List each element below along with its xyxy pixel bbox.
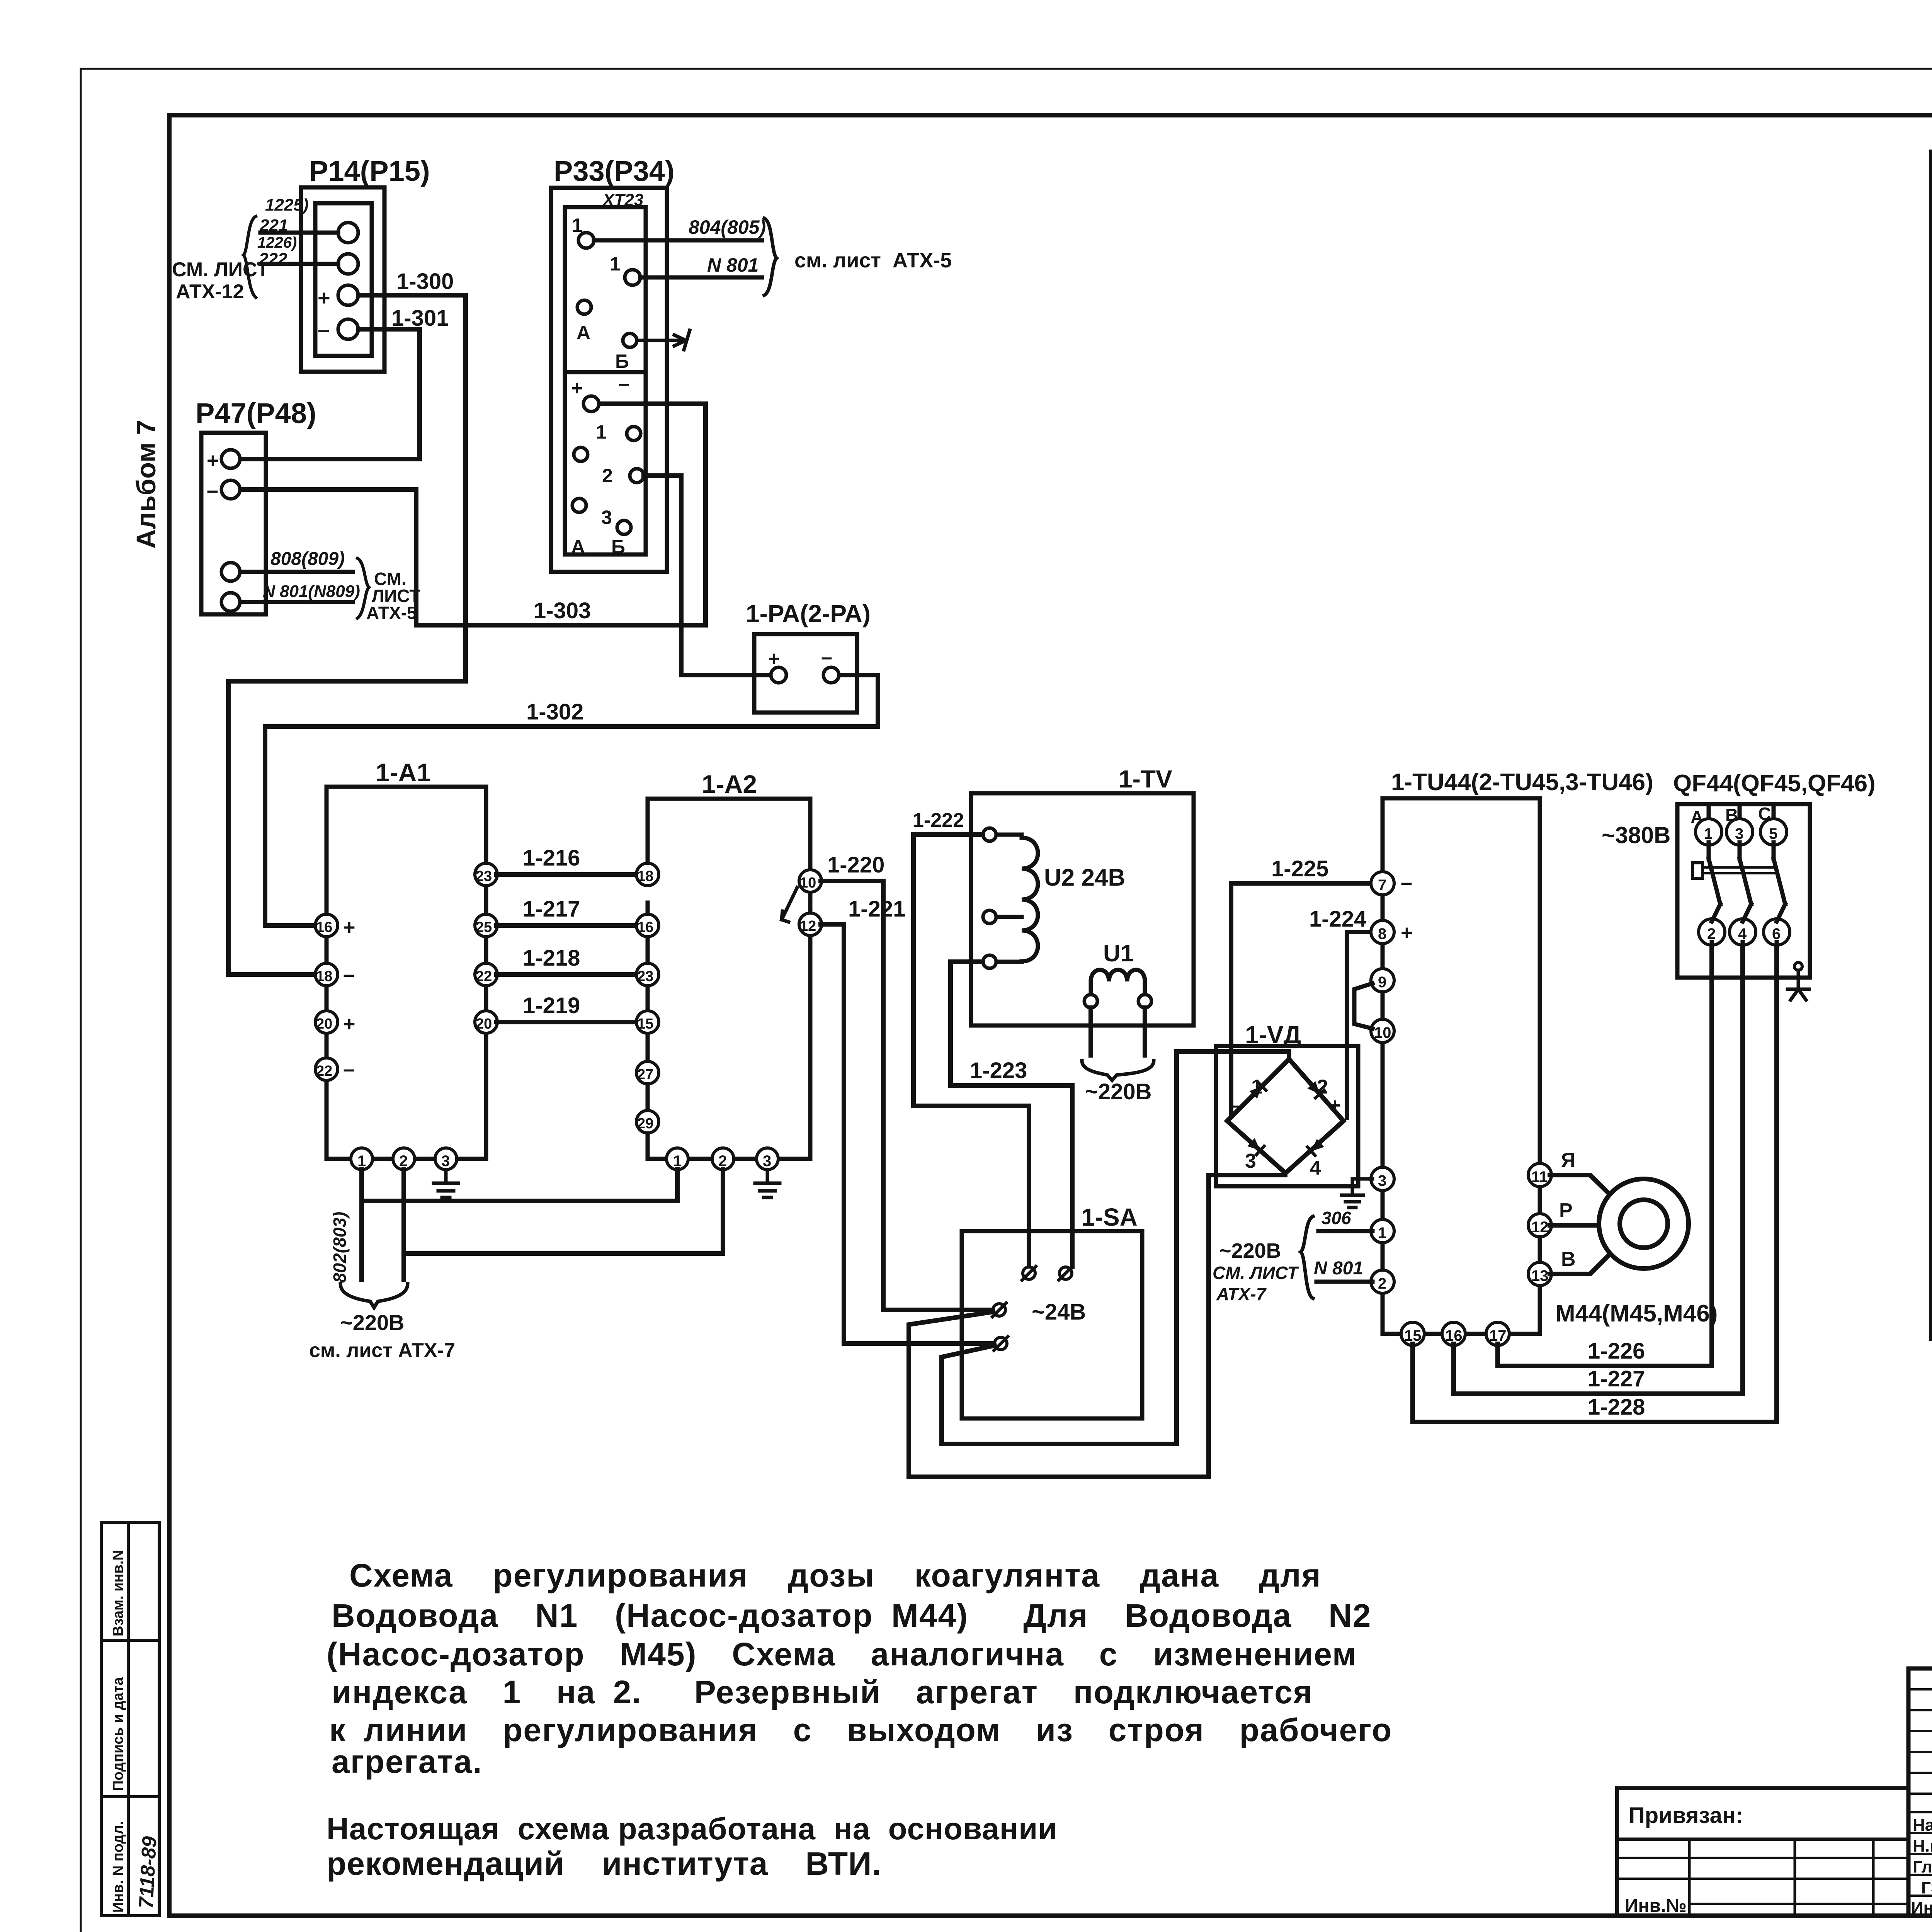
recorder P33(P34) [551,188,667,572]
svg-text:1-222: 1-222 [913,809,964,832]
svg-text:+: + [571,377,583,400]
svg-text:Я: Я [1561,1149,1575,1172]
P47 terminal plus [221,450,240,468]
wire 804(805) [594,238,762,243]
svg-text:1-ТV: 1-ТV [1119,765,1172,793]
wire P33.2 to PA plus [644,476,770,675]
manual control block 1-SA [962,1231,1142,1418]
TU44 box [1383,798,1540,1334]
U1 supply legs [1091,1008,1145,1055]
svg-text:4: 4 [1310,1157,1321,1179]
left margin stamp boxes [101,1522,159,1916]
svg-text:(Насос-дозатор М45) Схема а: (Насос-дозатор М45) Схема аналогична с и… [327,1636,1357,1672]
A1 terminal 22 [315,1058,338,1080]
svg-text:1-301: 1-301 [391,306,449,331]
P47 terminal 3 [221,563,240,581]
A2 terminal 2 [712,1148,734,1170]
svg-text:~220В: ~220В [1219,1239,1281,1262]
wire 1-303 [416,404,706,625]
title block signature rows [1908,1812,1932,1896]
svg-text:~380В: ~380В [1602,822,1670,848]
svg-text:1-221: 1-221 [848,896,905,922]
A2 terminal 18 [636,863,659,886]
brace 220V ATX-7 [1301,1216,1313,1298]
A2 terminal 27 [636,1061,659,1084]
TU44 terminal 11 [1528,1163,1551,1187]
svg-text:6: 6 [1772,925,1781,942]
svg-text:Р14(Р15): Р14(Р15) [309,155,430,187]
svg-text:25: 25 [476,919,492,935]
svg-text:–: – [1401,871,1412,894]
QF44 box [1677,804,1810,978]
motor M44 [1599,1179,1689,1269]
U1 terminal right [1138,995,1151,1008]
svg-text:СМ. ЛИСТ: СМ. ЛИСТ [1213,1263,1299,1283]
wire 1-220 [821,881,991,1310]
svg-text:СМ. ЛИСТ: СМ. ЛИСТ [172,259,269,281]
svg-text:2: 2 [1707,925,1716,942]
TU44 terminal 3 [1371,1167,1394,1190]
svg-text:23: 23 [476,868,492,884]
svg-text:29: 29 [637,1116,653,1132]
TU44 terminal 2 [1371,1270,1394,1293]
svg-text:1-226: 1-226 [1588,1338,1645,1364]
svg-text:~220В: ~220В [340,1310,405,1335]
block 1-A2 [648,799,810,1159]
svg-text:1-224: 1-224 [1309,906,1366,932]
wire A1.2 to A2.2 [404,1170,723,1280]
svg-text:2: 2 [602,465,613,486]
svg-text:–: – [343,1058,355,1081]
P33 pin 3 row [572,498,586,512]
svg-text:АТХ-12: АТХ-12 [176,281,244,303]
wire 808(809) from P47.3 [241,570,353,574]
svg-text:–: – [343,963,355,986]
svg-text:23: 23 [637,968,653,985]
svg-text:10: 10 [800,875,816,891]
brace under 220V feed [340,1284,408,1308]
wire TU44.11 to motor [1550,1175,1608,1193]
title block left thin rows [1908,1689,1932,1794]
svg-text:1-220: 1-220 [827,852,884,878]
svg-text:Н.контр.: Н.контр. [1913,1837,1932,1855]
svg-text:к линии регулирования с вых: к линии регулирования с выходом из строя… [329,1712,1393,1748]
wire 1-300 [228,295,466,975]
TU44 terminal 15 [1401,1322,1424,1345]
jumper 9-10 [1354,983,1372,1029]
svg-text:Р: Р [1559,1199,1573,1222]
svg-text:3: 3 [1378,1172,1386,1189]
table outer box [1931,151,1932,1339]
A2 terminal 3 [757,1148,778,1170]
svg-text:1-VД: 1-VД [1245,1021,1301,1049]
wire N801 to TU44.2 [1316,1280,1372,1284]
svg-text:Водовода N1 (Насос-дозатор М: Водовода N1 (Насос-дозатор М44) Для Водо… [332,1597,1371,1634]
wire 1-222 [913,835,1029,1267]
svg-text:1-218: 1-218 [523,946,580,971]
diode 3 [1247,1138,1264,1155]
svg-text:11: 11 [1531,1168,1548,1185]
svg-text:~24В: ~24В [1032,1299,1086,1325]
TU44 terminal 7 [1371,872,1394,895]
svg-text:М44(М45,М46): М44(М45,М46) [1555,1300,1718,1327]
A1 terminal 25 [475,914,497,937]
TV terminal top [983,828,996,841]
block 1-A1 [327,787,486,1159]
svg-text:Р47(Р48): Р47(Р48) [196,397,316,429]
svg-text:+: + [207,449,219,472]
svg-text:3: 3 [1245,1150,1256,1172]
wire N801 from P33 [640,276,762,280]
wire 1-217 [497,923,637,928]
svg-text:+: + [343,1012,355,1036]
svg-text:1: 1 [673,1153,682,1170]
svg-text:Настоящая схема разработана: Настоящая схема разработана на основании [327,1811,1057,1846]
svg-text:1-SА: 1-SА [1081,1203,1138,1231]
svg-text:U1: U1 [1103,940,1134,967]
wire A1.1 to A2.1 [362,1170,677,1280]
QF44 ground [1794,963,1802,970]
A1 terminal 18 [315,963,338,986]
svg-text:+: + [1329,1094,1341,1117]
svg-text:Взам. инв.N: Взам. инв.N [110,1550,126,1636]
svg-text:12: 12 [800,918,816,934]
wire 222 to P14.2 [260,262,338,266]
P33 pin A [577,300,591,314]
svg-text:20: 20 [476,1016,492,1032]
svg-text:АТХ-7: АТХ-7 [1216,1284,1267,1304]
svg-text:9: 9 [1378,974,1386,991]
svg-text:Схема регулирования дозы ко: Схема регулирования дозы коагулянта дана… [349,1557,1321,1594]
svg-text:1226): 1226) [257,234,297,251]
svg-text:~220В: ~220В [1085,1079,1152,1104]
diode 4 [1308,1139,1325,1156]
svg-text:20: 20 [316,1016,332,1032]
svg-text:27: 27 [637,1066,653,1083]
svg-text:16: 16 [637,919,653,935]
P33 pin B with test arrow [623,333,637,347]
svg-text:22: 22 [476,968,492,985]
svg-text:ХТ23: ХТ23 [602,190,643,209]
svg-text:3: 3 [601,507,612,528]
svg-text:1-А2: 1-А2 [702,770,757,798]
svg-text:Альбом 7: Альбом 7 [131,420,161,549]
P47 terminal minus [221,480,240,499]
A1 terminal 20r [475,1011,497,1033]
svg-text:Б: Б [611,536,625,558]
svg-text:N 801(N809): N 801(N809) [263,582,360,601]
svg-text:–: – [618,372,629,395]
title block outer [1908,1668,1932,1916]
svg-text:1: 1 [610,253,621,275]
svg-text:7: 7 [1378,877,1386,894]
svg-text:N 801: N 801 [707,254,759,276]
svg-text:3: 3 [763,1153,771,1170]
A2 switch blade [782,888,797,922]
wire 1-218 [497,972,637,977]
QF44 pole B [1738,804,1742,821]
wire 1-225 bridge minus to TU44.7 [1231,883,1371,1117]
wire P47 minus to 1-303 [241,490,416,625]
svg-text:1-227: 1-227 [1588,1366,1645,1391]
P14 terminal minus [338,319,358,339]
svg-text:18: 18 [637,868,653,884]
svg-text:13: 13 [1531,1267,1549,1284]
primary U1 coil [1091,970,1145,981]
transformer 1-TV box [971,793,1194,1026]
milliammeter 1-PA(2-PA) [754,634,857,713]
TU44.3 ground [1342,1179,1372,1207]
svg-text:8: 8 [1378,925,1386,942]
svg-text:U2 24В: U2 24В [1044,864,1125,891]
TU44 terminal 1 [1371,1219,1394,1243]
P14 terminal plus [338,285,358,305]
svg-text:Б: Б [615,350,629,372]
svg-text:808(809): 808(809) [270,549,345,569]
wire 1-228 [1413,942,1777,1422]
wire TU44.12 to motor [1550,1223,1599,1228]
U1 terminal left [1084,995,1097,1008]
main frame top line [169,113,1932,117]
TU44 terminal 10 [1371,1019,1394,1043]
A1 terminal 23 [475,863,497,886]
A1 terminal 16 [315,914,338,937]
svg-text:Инж.II к.: Инж.II к. [1911,1898,1932,1917]
wire 1-223 [951,962,1072,1267]
A1 ground [434,1170,458,1197]
wire 1-216 [497,872,637,877]
A2 terminal 10 [799,870,821,892]
svg-text:10: 10 [1374,1024,1391,1041]
svg-text:1-216: 1-216 [523,845,580,871]
svg-text:4: 4 [1738,925,1747,942]
TV secondary coil [1022,838,1038,961]
svg-text:ГЭП: ГЭП [1921,1878,1932,1897]
TU44 terminal 17 [1486,1322,1509,1345]
TU44 terminal 8 [1371,920,1394,944]
svg-text:см. лист АТХ-5: см. лист АТХ-5 [794,249,952,272]
wire 221 to P14.1 [260,231,338,235]
wire 1-227 [1454,942,1743,1394]
A2 terminal 12 [799,913,821,935]
svg-text:1-219: 1-219 [523,993,580,1018]
QF44 pole A [1707,804,1711,821]
P14 terminal 1 [338,223,358,243]
svg-text:+: + [343,916,355,939]
svg-text:–: – [318,317,330,342]
svg-text:1: 1 [1378,1225,1386,1242]
SA top terminal right [1060,1267,1072,1279]
A1 terminal 2 [393,1148,415,1170]
brace see sheet ATX-5 left [357,558,369,618]
diode 2 [1307,1081,1324,1098]
svg-text:5: 5 [1769,825,1777,842]
svg-text:18: 18 [316,968,332,985]
TU44 terminal 12 [1528,1214,1551,1237]
svg-text:802(803): 802(803) [330,1212,350,1283]
svg-text:1: 1 [1251,1076,1262,1098]
P14 terminal 2 [338,254,358,274]
wire 1-226 [1498,942,1712,1366]
diode 1 [1249,1082,1266,1099]
A1 terminal 22r [475,963,497,986]
TU44 terminal 13 [1528,1262,1551,1286]
svg-text:3: 3 [1735,825,1743,842]
A2 terminal 1 [667,1148,688,1170]
svg-text:Привязан:: Привязан: [1629,1803,1743,1828]
A2 ground [755,1170,780,1197]
TU44 terminal 9 [1371,969,1394,992]
svg-text:1-303: 1-303 [534,598,591,623]
svg-text:–: – [821,646,832,668]
wire SA2 to bridge AC1 [942,1051,1289,1444]
A2 terminal 29 [636,1111,659,1133]
svg-text:1-225: 1-225 [1271,856,1328,881]
wire 1-224 bridge plus to TU44.8 [1347,932,1371,1118]
svg-text:Нач.отд.: Нач.отд. [1913,1816,1932,1835]
wire TU44.13 to motor [1550,1257,1607,1274]
TV terminal mid [983,910,996,923]
svg-text:Гл.спец.: Гл.спец. [1913,1857,1932,1876]
svg-text:1-ТU44(2-ТU45,3-ТU46): 1-ТU44(2-ТU45,3-ТU46) [1391,769,1653,796]
brace for see sheet ATX-12 [243,216,256,298]
wire 306 [1318,1229,1372,1233]
privyazan box [1617,1788,1908,1916]
svg-text:2: 2 [718,1153,727,1170]
svg-text:А: А [571,536,585,558]
SA left terminal 1 [993,1304,1005,1316]
SA top terminal left [1023,1267,1035,1279]
QF44 pole C [1772,804,1776,821]
svg-text:см. лист АТХ-7: см. лист АТХ-7 [309,1339,455,1362]
svg-text:1: 1 [357,1153,366,1170]
table header bottom [1931,221,1932,224]
wire 1-302 [265,675,878,925]
svg-text:А: А [577,322,590,344]
transducer P14(P15) [301,187,384,372]
root extractor P47(P48) [201,433,266,614]
A2 terminal 16 [636,914,659,937]
svg-text:–: – [207,479,218,502]
P33 pin 2 row [574,447,588,461]
svg-text:3: 3 [441,1153,450,1170]
QF44 trip bar [1700,867,1777,873]
wire SA1 to bridge AC2 [909,1173,1285,1477]
A1 terminal 3 [435,1148,457,1170]
bridge 1-VD box [1216,1046,1358,1186]
svg-text:АТХ-5: АТХ-5 [366,603,417,623]
svg-text:1-А1: 1-А1 [376,758,431,787]
svg-text:1225): 1225) [265,196,309,214]
bridge diamond [1227,1059,1344,1173]
wire 1-301 [241,329,420,459]
svg-text:15: 15 [637,1016,653,1032]
svg-text:индекса 1 на 2. Резервный: индекса 1 на 2. Резервный агрегат подклю… [332,1674,1313,1710]
svg-text:2: 2 [1378,1275,1386,1292]
A2 terminal 15 [636,1011,659,1033]
TV terminal bottom [983,955,996,968]
svg-text:Подпись и дата: Подпись и дата [110,1677,126,1791]
svg-text:1-223: 1-223 [970,1058,1027,1083]
A1 terminal 20 [315,1011,338,1033]
svg-text:+: + [318,286,330,310]
svg-text:QF44(QF45,QF46): QF44(QF45,QF46) [1673,770,1876,797]
svg-text:В: В [1561,1248,1576,1270]
svg-text:рекомендаций института ВТИ: рекомендаций института ВТИ. [327,1845,881,1882]
TU44 terminal 16 [1442,1322,1465,1345]
wire 1-221 [821,924,992,1344]
svg-text:1: 1 [1704,825,1713,842]
svg-text:Р33(Р34): Р33(Р34) [554,155,675,187]
svg-text:1-302: 1-302 [526,699,583,724]
svg-text:306: 306 [1321,1208,1351,1228]
svg-text:7118-89: 7118-89 [135,1836,161,1909]
svg-text:+: + [1401,921,1413,944]
svg-text:Инв. N подл.: Инв. N подл. [110,1821,126,1913]
svg-text:Инв.№: Инв.№ [1625,1896,1687,1916]
svg-text:804(805): 804(805) [689,216,766,238]
svg-text:12: 12 [1531,1219,1549,1236]
svg-text:N 801: N 801 [1314,1258,1363,1279]
svg-text:2: 2 [399,1153,408,1170]
wire 1-219 [497,1020,637,1024]
A1 terminal 1 [351,1148,372,1170]
svg-text:16: 16 [316,919,332,935]
A2 terminal 23 [636,963,659,986]
SA left terminal 2 [995,1337,1007,1350]
brace under U1 legs [1082,1061,1154,1080]
svg-text:агрегата.: агрегата. [332,1743,483,1780]
table row lines [1931,261,1932,1323]
svg-text:1-300: 1-300 [396,269,454,294]
brace see sheet ATX-5 top [764,218,777,295]
svg-text:1-228: 1-228 [1588,1395,1645,1420]
svg-text:221: 221 [259,216,288,235]
wire N801 from P47.4 [241,600,353,604]
svg-text:2: 2 [1317,1076,1328,1098]
svg-text:22: 22 [316,1063,332,1079]
P47 terminal 4 [221,593,240,611]
svg-text:1-217: 1-217 [523,896,580,922]
svg-text:1: 1 [596,421,607,443]
svg-text:1-РА(2-РА): 1-РА(2-РА) [746,600,871,628]
